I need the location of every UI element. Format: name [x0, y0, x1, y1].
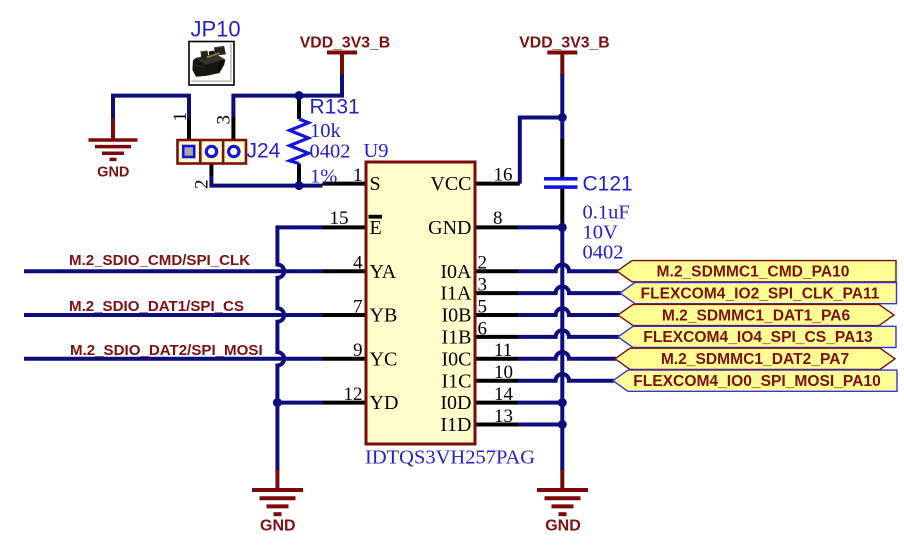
svg-text:E: E — [370, 217, 382, 239]
svg-text:YC: YC — [370, 348, 398, 370]
svg-text:12: 12 — [344, 384, 363, 405]
svg-text:VDD_3V3_B: VDD_3V3_B — [519, 35, 609, 52]
svg-text:2: 2 — [192, 180, 213, 190]
svg-text:I0A: I0A — [440, 261, 472, 283]
svg-text:1: 1 — [170, 112, 191, 122]
svg-text:J24: J24 — [247, 140, 281, 163]
svg-text:M.2_SDIO_DAT1/SPI_CS: M.2_SDIO_DAT1/SPI_CS — [69, 298, 244, 315]
svg-text:YD: YD — [370, 392, 399, 414]
svg-text:5: 5 — [478, 296, 488, 317]
svg-text:GND: GND — [428, 217, 471, 239]
svg-text:I0B: I0B — [442, 305, 472, 327]
svg-text:0402: 0402 — [583, 242, 624, 264]
svg-text:FLEXCOM4_IO0_SPI_MOSI_PA10: FLEXCOM4_IO0_SPI_MOSI_PA10 — [633, 373, 881, 390]
svg-text:YB: YB — [370, 305, 398, 327]
svg-text:11: 11 — [494, 340, 512, 361]
svg-text:I0C: I0C — [442, 348, 472, 370]
svg-text:9: 9 — [353, 340, 363, 361]
svg-text:VDD_3V3_B: VDD_3V3_B — [300, 35, 390, 52]
svg-text:3: 3 — [214, 115, 235, 125]
svg-text:GND: GND — [545, 518, 581, 535]
svg-text:1: 1 — [353, 165, 363, 186]
svg-text:GND: GND — [97, 165, 129, 181]
svg-text:M.2_SDMMC1_DAT1_PA6: M.2_SDMMC1_DAT1_PA6 — [662, 307, 851, 324]
svg-text:10: 10 — [494, 362, 513, 383]
svg-text:2: 2 — [478, 253, 488, 274]
svg-text:JP10: JP10 — [191, 17, 241, 42]
svg-text:14: 14 — [494, 384, 514, 405]
svg-text:0.1uF: 0.1uF — [583, 202, 630, 224]
svg-text:I0D: I0D — [440, 392, 471, 414]
svg-text:I1A: I1A — [440, 283, 472, 305]
svg-text:1%: 1% — [310, 166, 337, 188]
svg-text:6: 6 — [478, 318, 488, 339]
svg-text:M.2_SDIO_CMD/SPI_CLK: M.2_SDIO_CMD/SPI_CLK — [69, 252, 250, 269]
svg-text:C121: C121 — [583, 173, 633, 196]
svg-text:R131: R131 — [310, 96, 360, 119]
svg-text:YA: YA — [370, 261, 397, 283]
svg-text:10V: 10V — [583, 222, 619, 244]
svg-text:I1C: I1C — [442, 370, 472, 392]
svg-text:IDTQS3VH257PAG: IDTQS3VH257PAG — [365, 447, 535, 469]
svg-text:M.2_SDMMC1_CMD_PA10: M.2_SDMMC1_CMD_PA10 — [657, 264, 850, 281]
svg-text:FLEXCOM4_IO4_SPI_CS_PA13: FLEXCOM4_IO4_SPI_CS_PA13 — [643, 329, 873, 346]
svg-text:FLEXCOM4_IO2_SPI_CLK_PA11: FLEXCOM4_IO2_SPI_CLK_PA11 — [641, 285, 880, 302]
svg-text:M.2_SDMMC1_DAT2_PA7: M.2_SDMMC1_DAT2_PA7 — [661, 351, 849, 368]
svg-text:I1D: I1D — [440, 414, 471, 436]
svg-text:0402: 0402 — [310, 141, 351, 163]
svg-text:13: 13 — [494, 406, 513, 427]
svg-text:10k: 10k — [310, 120, 342, 142]
svg-text:GND: GND — [260, 518, 296, 535]
svg-text:U9: U9 — [364, 140, 389, 162]
svg-text:4: 4 — [353, 253, 363, 274]
svg-text:16: 16 — [494, 165, 513, 186]
svg-text:VCC: VCC — [430, 173, 471, 195]
svg-text:M.2_SDIO_DAT2/SPI_MOSI: M.2_SDIO_DAT2/SPI_MOSI — [70, 342, 263, 359]
svg-text:I1B: I1B — [442, 327, 472, 349]
svg-text:8: 8 — [493, 208, 503, 229]
svg-text:S: S — [370, 173, 381, 195]
svg-text:7: 7 — [353, 296, 363, 317]
svg-text:15: 15 — [330, 208, 349, 229]
svg-text:3: 3 — [478, 275, 488, 296]
